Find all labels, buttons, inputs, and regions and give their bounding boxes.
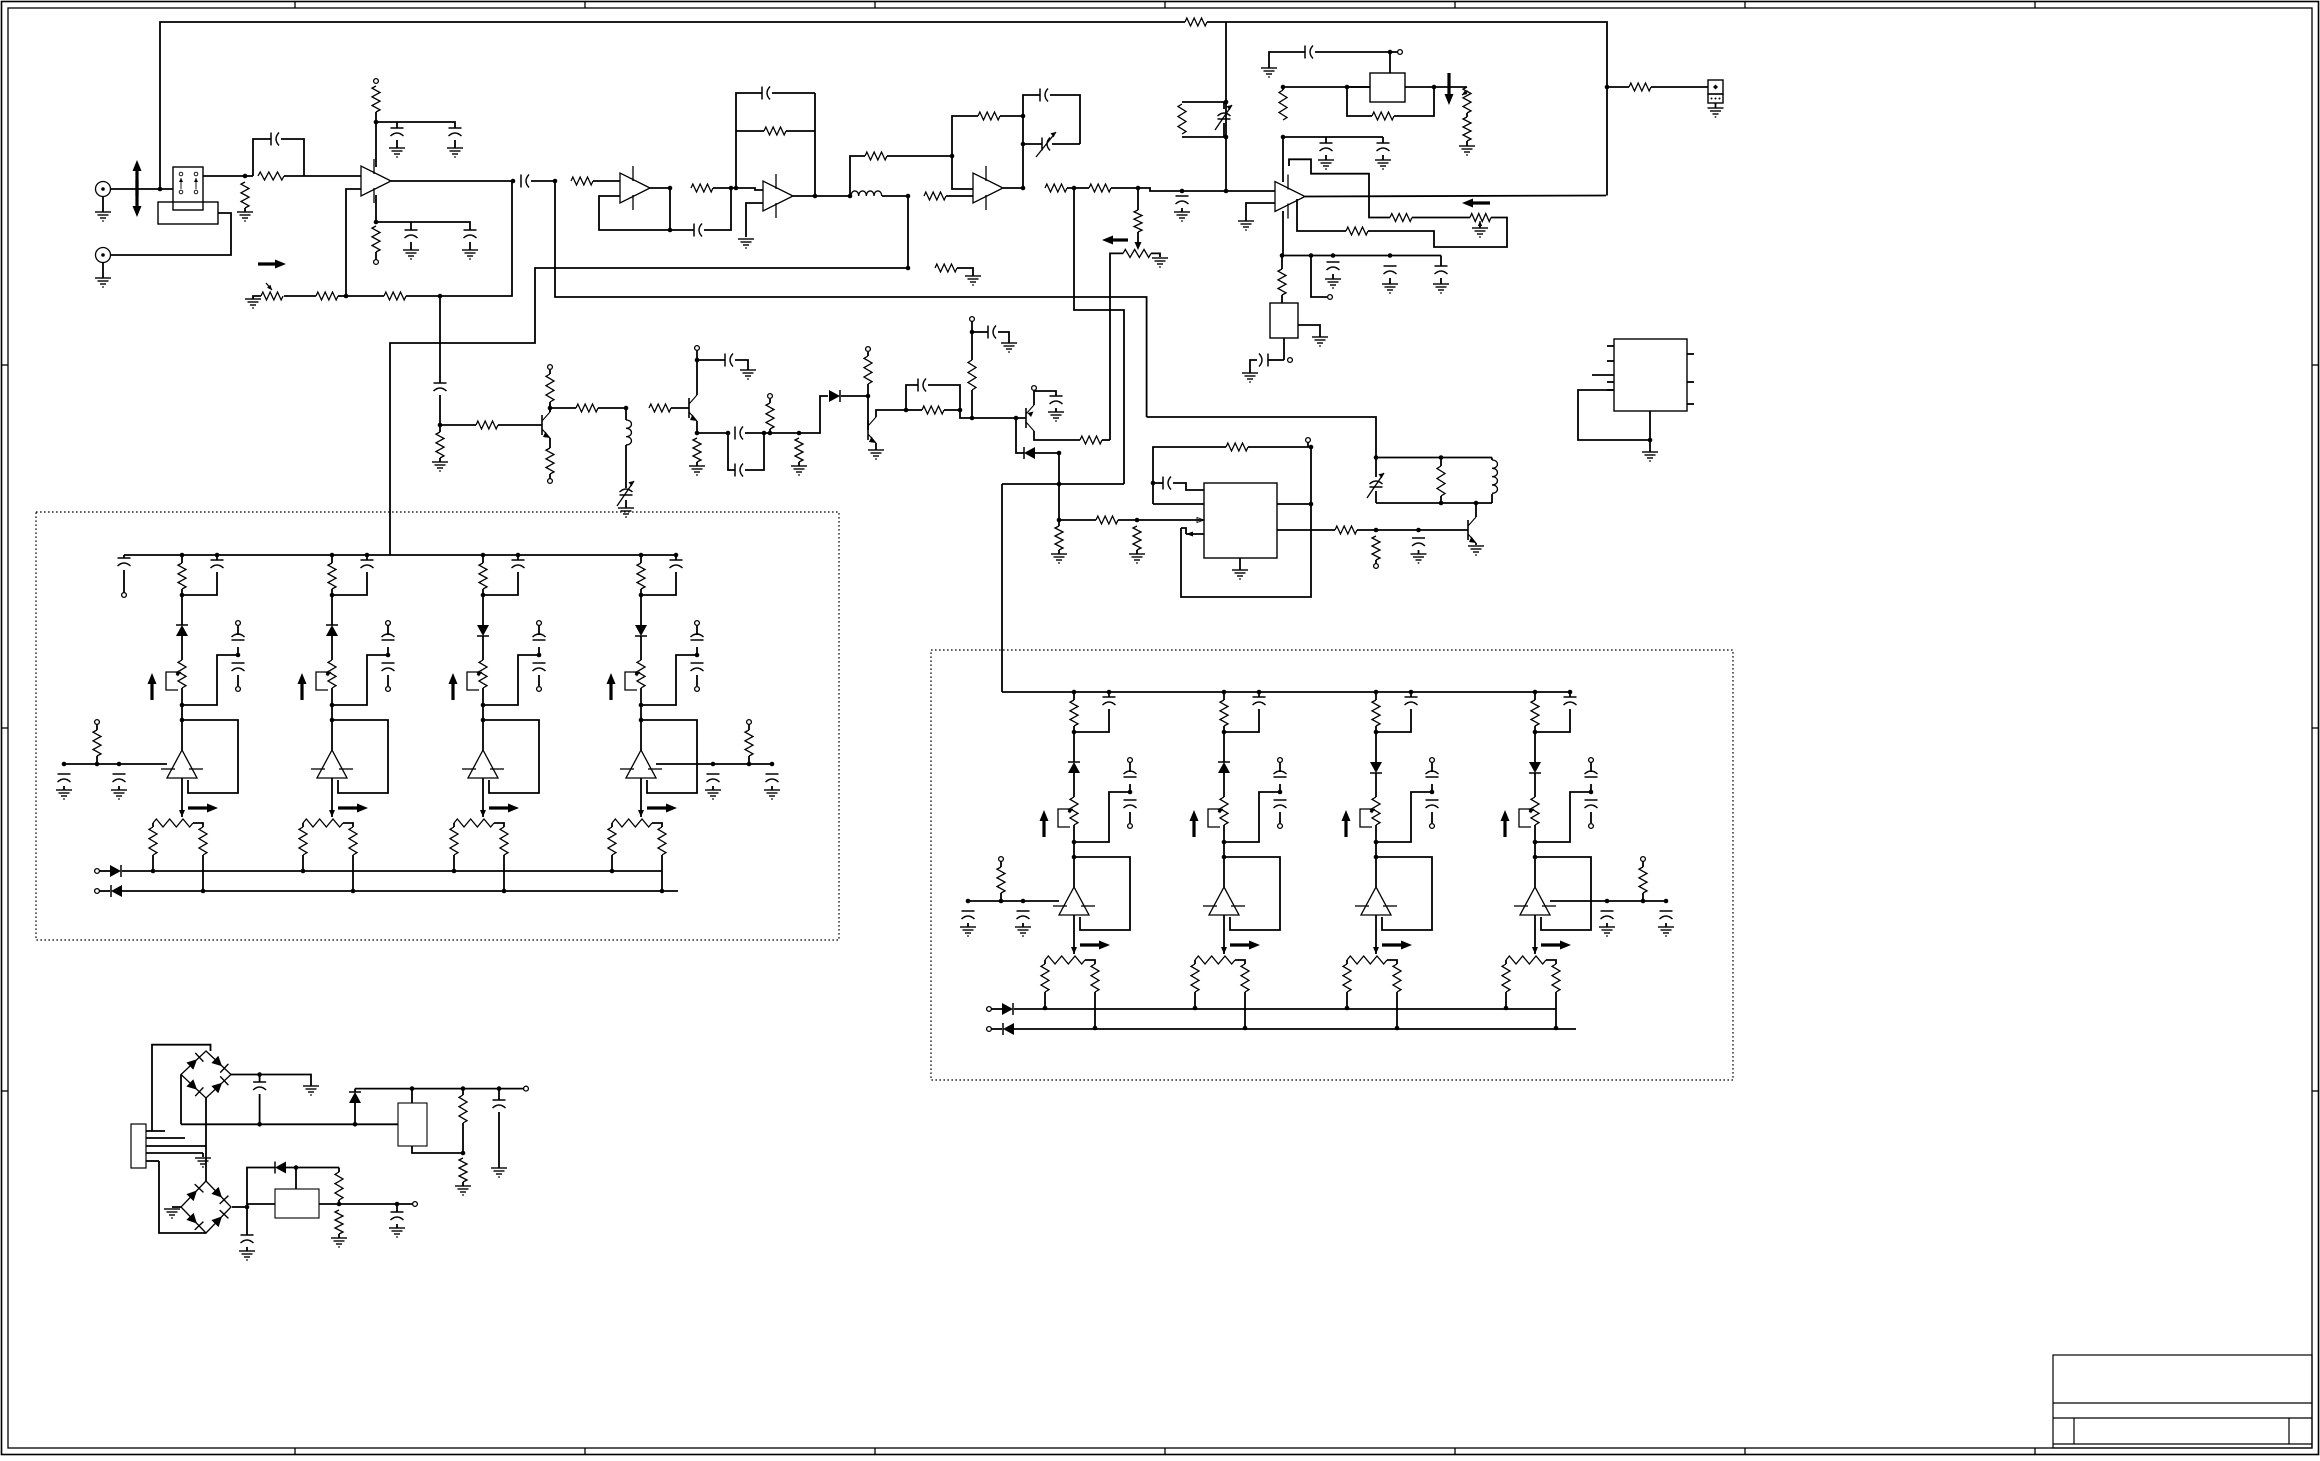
- wire fb left riser: [736, 93, 762, 188]
- ground C26: [1001, 343, 1017, 352]
- terminal supply: [866, 347, 871, 352]
- ground bias63 c1: [1599, 927, 1615, 936]
- capacitor C53: [391, 1212, 404, 1220]
- border zone tick left: [2, 727, 9, 729]
- wire U1 out: [391, 180, 513, 182]
- diode D52a: [477, 625, 489, 636]
- title block row line: [2053, 1443, 2312, 1445]
- terminal: [1306, 438, 1311, 443]
- junction ch63 bus: [1533, 690, 1538, 695]
- wire C25 branch: [906, 385, 918, 410]
- ground below C4: [403, 250, 419, 259]
- resistor R50a trunk: [178, 563, 186, 589]
- terminal X2 tap: [1288, 358, 1293, 363]
- resistor R41: [1372, 536, 1380, 560]
- junction VR1 top: [410, 1086, 415, 1091]
- wire relay to R2 node: [203, 175, 245, 177]
- wire bias63 term: [1642, 861, 1644, 867]
- wire R17 right: [1394, 87, 1434, 116]
- resistor R12: [978, 112, 1000, 120]
- wire ch50 feedback loop: [182, 720, 238, 793]
- wire J2 ground stub: [102, 263, 104, 279]
- wire C15 to term: [1315, 51, 1390, 53]
- trimmer arrow: [1036, 132, 1056, 157]
- wire ch62 cap down: [1376, 709, 1411, 732]
- junction ch61 cap mid: [1278, 790, 1283, 795]
- capacitor C1: [271, 133, 279, 146]
- wire ch53 cap down: [641, 572, 676, 595]
- wire ch62 pot out: [1375, 825, 1377, 842]
- wire C18 drop: [1440, 256, 1442, 267]
- wire ch53 R53b to busA: [611, 855, 613, 871]
- transistor Q6: [1468, 517, 1476, 543]
- junction bias50 c2: [117, 762, 122, 767]
- trim potentiometer RV60a: [1070, 797, 1078, 825]
- wire C2 to gnd: [396, 140, 398, 148]
- ground BR2 left: [164, 1209, 180, 1218]
- wire fb right riser: [814, 93, 816, 196]
- wire ch60 cap tap: [1074, 792, 1130, 842]
- transistor Q2: [542, 412, 550, 438]
- dashed group box: [36, 512, 839, 940]
- wire ch61 capstack mid: [1279, 784, 1281, 792]
- diode bus B: [111, 885, 122, 897]
- wire RV3 wiper gnd: [1479, 224, 1481, 228]
- wire C28 to pin: [1173, 483, 1204, 490]
- junction ch60 fb top: [1072, 855, 1077, 860]
- wire R5 to term: [375, 252, 377, 260]
- wire R9 node: [713, 187, 736, 189]
- wire R34 stubs: [971, 390, 973, 392]
- wire ch51 feedback loop: [332, 720, 388, 793]
- border zone tick bottom: [874, 1448, 876, 1455]
- wire ch63 cap down: [1535, 709, 1570, 732]
- wire feedback run: [346, 295, 384, 297]
- terminal ch50 caps bottom: [236, 687, 241, 692]
- junction ch52 busA: [452, 869, 457, 874]
- wire BR1 left down: [180, 1075, 182, 1125]
- capacitor C52b: [533, 634, 546, 640]
- wire R14 to node: [1111, 187, 1138, 189]
- wire Q4 emitter gnd: [875, 443, 877, 450]
- wire bias60 term: [1000, 861, 1002, 867]
- wire ch60 capstack: [1129, 762, 1131, 772]
- trimmer arrow: [1215, 105, 1232, 130]
- wire D50 bot: [354, 1103, 356, 1124]
- diode D62a: [1370, 762, 1382, 773]
- arrowhead pot wiper: [1135, 242, 1142, 250]
- capacitor C52a: [512, 560, 525, 568]
- junction D50 rail: [353, 1122, 358, 1127]
- diode bus A: [1002, 1003, 1013, 1015]
- junction ch50 node3: [180, 703, 185, 708]
- junction U3 out fb: [813, 194, 818, 199]
- title block outline: [2053, 1355, 2312, 1448]
- trim potentiometer RV62a: [1372, 797, 1380, 825]
- resistor R61a trunk: [1220, 700, 1228, 726]
- resistor R22: [1629, 83, 1651, 91]
- wire R53 gnd: [338, 1234, 340, 1238]
- wire ch53 pot left leg: [611, 823, 613, 827]
- border zone tick top: [1744, 2, 1746, 9]
- ground R29: [689, 466, 705, 475]
- wire U3 out: [793, 195, 851, 197]
- ground R18: [1459, 146, 1475, 155]
- capacitor C60d: [962, 911, 975, 919]
- wire ch50 cap tap: [182, 655, 238, 705]
- capacitor C22: [725, 354, 733, 367]
- ground bias53 c1: [705, 790, 721, 799]
- wire U5 noninv gnd: [1246, 203, 1275, 221]
- wire ch61 capstack bot: [1279, 812, 1281, 823]
- wire V+ caps rail: [1283, 136, 1383, 138]
- junction C28: [1151, 481, 1156, 486]
- resistor R11: [924, 192, 946, 200]
- wire to C30: [1376, 529, 1419, 531]
- wire fb to output riser: [406, 181, 512, 296]
- resistor R39: [1055, 526, 1063, 550]
- wire ch60 capstack mid: [1129, 784, 1131, 792]
- capacitor C13: [1320, 143, 1333, 151]
- arrow up annotation ch61: [1190, 810, 1199, 837]
- trim pot RV63a wiper box: [1519, 809, 1531, 827]
- junction R38 tap: [1135, 518, 1140, 523]
- wire R2 to gnd: [244, 208, 246, 212]
- trim pot RV51a wiper: [326, 672, 331, 677]
- wire ch50 amp out: [181, 778, 183, 817]
- wire D2 to node: [1035, 452, 1059, 454]
- ground Q6: [1468, 546, 1484, 555]
- junction ch61 busA: [1193, 1006, 1198, 1011]
- border zone tick bottom: [1164, 1448, 1166, 1455]
- wire mid rail: [181, 1123, 398, 1125]
- junction ch63 cap top: [1568, 690, 1573, 695]
- arrowhead ch62 out: [1373, 947, 1379, 954]
- wire R26 node: [598, 407, 626, 409]
- resistor R4 supply: [372, 86, 380, 112]
- junction supply riser: [1224, 189, 1229, 194]
- ground at J2: [95, 278, 111, 287]
- trim potentiometer RV50a: [178, 660, 186, 688]
- resistor R63d: [1639, 867, 1647, 893]
- wire R13 node: [1067, 187, 1089, 189]
- inductor L3: [1492, 460, 1497, 493]
- resistor R53d: [745, 730, 753, 756]
- wire U4 out: [1003, 187, 1023, 189]
- relay K1 box: [173, 167, 203, 210]
- wire U5 V- stub: [1282, 211, 1284, 256]
- resistor R1 on top bus: [1185, 18, 1207, 26]
- potentiometer RV51b: [303, 819, 343, 827]
- wire C51 gnd: [498, 1112, 500, 1168]
- junction ch53 bus: [639, 553, 644, 558]
- junction ch62 cap mid: [1430, 790, 1435, 795]
- wire riser to tank: [1147, 417, 1376, 458]
- junction ch62 fb top: [1374, 855, 1379, 860]
- resistor R11b: [865, 152, 887, 160]
- junction ch60 cap mid: [1128, 790, 1133, 795]
- border zone tick left: [2, 1090, 9, 1092]
- wire bias63 res leg: [1642, 893, 1644, 901]
- wire ch52 trunk: [482, 589, 484, 595]
- terminal supply: [768, 394, 773, 399]
- ground C53: [389, 1228, 405, 1237]
- title block cell divider: [2073, 1418, 2075, 1444]
- wire V- rail: [1282, 255, 1441, 257]
- wire ch50 capstack bot: [237, 675, 239, 686]
- ground RV3: [1472, 228, 1488, 237]
- wire C19 right: [1268, 359, 1284, 361]
- potentiometer RV63b: [1506, 956, 1546, 964]
- capacitor C25: [918, 379, 926, 392]
- wire T1 to BR1 top: [152, 1045, 211, 1131]
- arrowhead ch52 out: [480, 810, 486, 817]
- resistor R61c: [1241, 964, 1249, 992]
- terminal ch62 caps bottom: [1430, 824, 1435, 829]
- resistor R21: [1278, 269, 1286, 295]
- junction C30 tap: [1416, 528, 1421, 533]
- diode D2: [1024, 447, 1035, 459]
- ground C17: [1382, 284, 1398, 293]
- wire ch60 to diode: [1073, 732, 1075, 762]
- resistor R31: [795, 438, 803, 462]
- junction L1/R11: [906, 194, 911, 199]
- wire ch53 feedback loop: [641, 720, 697, 793]
- wire ch63 trunk: [1534, 692, 1536, 700]
- trim pot RV62a wiper box: [1360, 809, 1372, 827]
- wire R21 stub: [1281, 256, 1283, 270]
- wire bus B: [1014, 1028, 1576, 1030]
- resistor R6: [316, 292, 338, 300]
- wire ch63 to amp: [1534, 842, 1536, 887]
- wire R20 loop: [1368, 218, 1507, 248]
- wire ch61 R61b to busA: [1194, 992, 1196, 1008]
- ground R38: [1129, 554, 1145, 563]
- wire tank bottom: [1376, 502, 1492, 504]
- resistor R51c: [349, 827, 357, 855]
- IC U7 pin 7 right: [1687, 381, 1694, 383]
- junction at relay input: [158, 187, 163, 192]
- trim pot RV60a wiper box: [1058, 809, 1070, 827]
- junction R9/C8: [734, 186, 739, 191]
- arrow up annotation ch50: [148, 673, 157, 700]
- arrowhead ch50 out: [179, 810, 185, 817]
- wire ch52 amp out: [482, 778, 484, 817]
- wire ch60 trunk: [1073, 726, 1075, 732]
- capacitor C50c: [232, 663, 245, 671]
- wire ch50 trunk: [181, 589, 183, 595]
- ground C19: [1242, 373, 1258, 382]
- junction tank top-l: [1374, 455, 1379, 460]
- amplifier A53: [620, 750, 662, 778]
- capacitor C53b: [691, 634, 704, 640]
- wire ch52 trunk: [482, 555, 484, 563]
- wire R32 bot: [867, 384, 869, 396]
- junction reg2 top: [294, 1165, 299, 1170]
- wire bias53 c1 gnd: [712, 786, 714, 790]
- junction feedback tap: [438, 294, 443, 299]
- wire ch51 R51b to busA: [302, 855, 304, 871]
- wire ch63 capstack mid: [1590, 784, 1592, 792]
- resistor R26: [576, 404, 598, 412]
- potentiometer RV3: [1470, 214, 1491, 222]
- junction xtal rail: [1281, 85, 1286, 90]
- junction ch51 cap top: [365, 553, 370, 558]
- wire R7 to gnd: [957, 268, 973, 276]
- terminal ch51 caps top: [386, 621, 391, 626]
- wire C20 to node: [439, 395, 441, 425]
- junction U2 out fb: [729, 186, 734, 191]
- wire to Q5 base line: [960, 410, 1026, 418]
- junction ch61 node1: [1222, 730, 1227, 735]
- capacitor C61c: [1274, 800, 1287, 808]
- wire RV4 left leg: [1110, 253, 1123, 440]
- junction RC out: [958, 408, 963, 413]
- potentiometer RV62b: [1347, 956, 1387, 964]
- resistor R51: [459, 1158, 467, 1182]
- arrowhead ch60 out: [1071, 947, 1077, 954]
- wire U6 out: [1277, 529, 1335, 531]
- relay K1 actuator: [179, 178, 183, 189]
- trim pot RV51a wiper box: [316, 672, 328, 690]
- trimmer arrow: [1367, 473, 1384, 498]
- wire X1 loop: [1347, 87, 1372, 116]
- junction ch50 cap mid: [236, 653, 241, 658]
- resistor R52c: [500, 827, 508, 855]
- terminal ch60 caps top: [1128, 758, 1133, 763]
- arrow up annotation ch53: [607, 673, 616, 700]
- junction ch63 node3: [1533, 840, 1538, 845]
- wire ch62 pot left leg: [1346, 960, 1348, 964]
- wire VR2 top pin: [295, 1168, 297, 1190]
- junction C17 tap: [1388, 253, 1393, 258]
- wire ch50 pot out: [181, 688, 183, 705]
- trim potentiometer RV61a: [1220, 797, 1228, 825]
- ground C52: [239, 1251, 255, 1260]
- wire ch51 cap tap: [332, 655, 388, 705]
- junction ch52 node1: [481, 593, 486, 598]
- border zone tick bottom: [1744, 1448, 1746, 1455]
- op-amp U5: [1275, 175, 1305, 219]
- wire R24 gnd: [439, 458, 441, 462]
- resistor R18: [1463, 117, 1471, 141]
- wire Q6 emitter gnd: [1475, 543, 1477, 545]
- junction ch63 busB: [1554, 1026, 1559, 1031]
- wire Q3 emitter: [696, 421, 698, 433]
- junction caps out: [762, 431, 767, 436]
- wire ch61 to diode: [1223, 732, 1225, 762]
- ground R39: [1051, 554, 1067, 563]
- resistor R53a trunk: [637, 563, 645, 589]
- diode D63a: [1529, 762, 1541, 773]
- capacitor C53d: [707, 774, 720, 782]
- wire ch53 cap tap: [641, 655, 697, 705]
- diode bus A: [110, 865, 121, 877]
- junction V+ node: [1281, 135, 1286, 140]
- resistor R62c: [1393, 964, 1401, 992]
- resistor R15b: [1134, 210, 1142, 232]
- ground C14: [1375, 160, 1391, 169]
- wire ch63 feedback loop: [1535, 857, 1591, 930]
- junction ch53 busB: [660, 889, 665, 894]
- junction ch62 node1: [1374, 730, 1379, 735]
- junction fb-ind tap: [906, 266, 911, 271]
- junction ch52 cap mid: [537, 653, 542, 658]
- capacitor C53c: [691, 663, 704, 671]
- capacitor C50d: [58, 774, 71, 782]
- junction Q6 coll tap: [1474, 501, 1479, 506]
- wire R37 to U6: [1118, 519, 1204, 521]
- wire ch53 to diode: [640, 595, 642, 625]
- bridge rectifier BR1: [181, 1051, 231, 1098]
- potentiometer RV61b: [1195, 956, 1235, 964]
- wire L3 stubs: [1491, 458, 1493, 461]
- wire bank1 top bus: [124, 554, 677, 556]
- arrowhead ch61 out: [1221, 947, 1227, 954]
- wire drop to fb line: [907, 196, 909, 268]
- arrow left annotation: [1462, 199, 1490, 208]
- junction X1 right: [1432, 85, 1437, 90]
- diode D61a: [1218, 762, 1230, 773]
- junction ch62 cap top: [1409, 690, 1414, 695]
- wire R4 to rail: [375, 112, 377, 122]
- ground U7: [1642, 452, 1658, 461]
- wire fb R10 branch: [736, 130, 764, 132]
- inductor L1: [851, 191, 882, 196]
- junction inv node: [344, 294, 349, 299]
- terminal supply: [970, 317, 975, 322]
- wire ch53 amp out: [640, 778, 642, 817]
- junction ch52 fb top: [481, 718, 486, 723]
- terminal supply: [1032, 386, 1037, 391]
- wire right riser: [1310, 447, 1312, 504]
- junction ch63 busA: [1504, 1006, 1509, 1011]
- wire bias50 c1 gnd: [63, 786, 65, 790]
- junction Q3 emit: [695, 431, 700, 436]
- junction L2 node: [624, 406, 629, 411]
- junction ch52 cap top: [516, 553, 521, 558]
- wire D50 top: [354, 1089, 356, 1092]
- wire C18 gnd: [1440, 278, 1442, 284]
- junction U4 out: [1021, 186, 1026, 191]
- wire ch53 R53c to busB: [661, 855, 663, 891]
- wire ch50 capstack mid: [237, 647, 239, 655]
- wire R10 right: [786, 130, 815, 132]
- connector J2 (BNC input): [96, 248, 111, 263]
- wire term stub: [1390, 51, 1398, 53]
- wire ch52 pot left leg: [453, 823, 455, 827]
- connector J1 (BNC input): [96, 182, 111, 197]
- potentiometer RV53b: [612, 819, 652, 827]
- potentiometer RV1: [261, 292, 283, 300]
- junction ch60 cap top: [1107, 690, 1112, 695]
- terminal ch53 caps bottom: [695, 687, 700, 692]
- wire ch52 R52b to busA: [453, 855, 455, 871]
- wire tank top: [1376, 457, 1492, 459]
- junction U7 gnd node: [1648, 438, 1653, 443]
- capacitor C51c: [382, 663, 395, 671]
- wire Q5 emitter: [1033, 391, 1035, 405]
- wire cap C2 drop: [396, 122, 398, 128]
- resistor R50c: [199, 827, 207, 855]
- transformer T1 pin: [146, 1160, 159, 1162]
- wire J2 to relay K1: [111, 213, 232, 255]
- terminal supply: [695, 346, 700, 351]
- wire to gnd leg: [260, 1075, 311, 1087]
- wire ch53 cap branch: [675, 555, 677, 560]
- junction R52 tap: [337, 1202, 342, 1207]
- transformer T1 pin: [146, 1130, 165, 1132]
